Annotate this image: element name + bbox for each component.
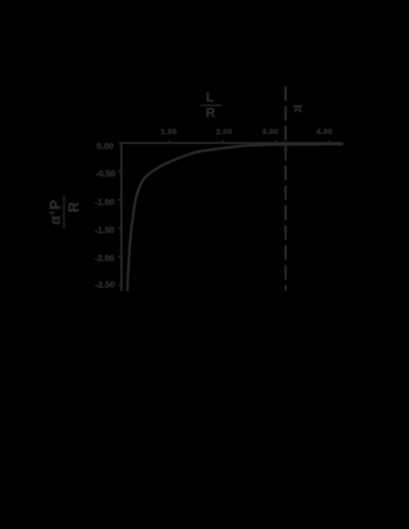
curve: [127, 144, 343, 291]
svg-text:α'P: α'P: [48, 199, 64, 225]
svg-text:2.00: 2.00: [216, 127, 232, 136]
y axis (left): [120, 142, 122, 291]
svg-text:0.00: 0.00: [97, 141, 114, 151]
svg-text:R: R: [206, 105, 216, 120]
svg-text:-1.00: -1.00: [95, 197, 115, 207]
svg-text:4.00: 4.00: [316, 127, 332, 136]
y tick -1.00: [118, 199, 121, 201]
dashed line at pi: [284, 86, 286, 291]
svg-text:3.00: 3.00: [262, 127, 278, 136]
y tick 0.00: [118, 142, 121, 144]
svg-text:1.00: 1.00: [161, 127, 177, 136]
svg-text:-1.50: -1.50: [95, 225, 115, 235]
x tick 2.00: [222, 140, 224, 142]
svg-text:π: π: [293, 103, 302, 115]
y tick -2.50: [118, 284, 121, 286]
svg-text:R: R: [66, 201, 82, 212]
x tick 4.00: [328, 140, 330, 142]
svg-text:L: L: [206, 90, 214, 105]
x tick 3.00: [275, 140, 277, 142]
y tick -0.50: [118, 170, 121, 172]
x axis (top): [120, 142, 343, 144]
svg-text:-2.00: -2.00: [95, 253, 115, 263]
svg-text:-2.50: -2.50: [95, 280, 115, 290]
y tick -2.00: [118, 256, 121, 258]
fraction bar: [63, 196, 64, 228]
y axis title fraction, rotated: [48, 196, 83, 228]
axis title L/R fraction bar: [201, 105, 222, 106]
svg-text:-0.50: -0.50: [96, 169, 116, 179]
y tick -1.50: [118, 227, 121, 229]
x tick 1.00: [167, 140, 169, 142]
